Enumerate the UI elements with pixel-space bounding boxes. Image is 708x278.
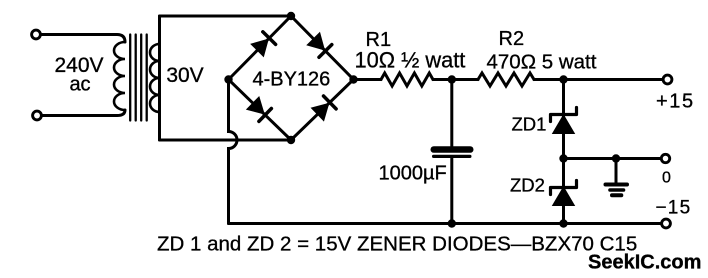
junction node bridge top: [287, 12, 295, 20]
transformer T1 primary winding: [114, 42, 125, 110]
terminal input bottom: [33, 111, 42, 120]
wire capacitor branch bottom: [450, 159, 453, 224]
terminal input top: [32, 30, 41, 39]
wire secondary bottom to bridge bottom node: [160, 139, 292, 142]
svg-text:ac: ac: [69, 74, 90, 96]
wire secondary top to bridge: [160, 15, 292, 18]
wire capacitor branch top: [450, 80, 453, 147]
diode D2 (top-right arm): [307, 33, 332, 58]
svg-text:30V: 30V: [166, 64, 203, 87]
junction node bridge left: [224, 75, 232, 83]
diode D4 (bottom-right arm): [312, 96, 337, 121]
junction node bridge right: [349, 75, 357, 83]
ground stub: [615, 159, 618, 183]
svg-text:4-BY126: 4-BY126: [252, 69, 330, 91]
resistor R1 zigzag: [381, 73, 433, 86]
wire zener branch ZD2: [562, 159, 565, 224]
wire zener branch ZD1: [562, 80, 565, 159]
junction node C1 bottom: [448, 219, 456, 227]
wire 0 rail: [564, 157, 662, 160]
wire top input: [41, 35, 126, 43]
svg-text:0: 0: [662, 170, 671, 187]
wire left bridge node down with hop over wire: [229, 80, 238, 224]
junction node ZD1/ZD2/0: [559, 154, 567, 162]
svg-text:1000µF: 1000µF: [379, 163, 447, 185]
junction node bridge bottom: [287, 136, 295, 144]
diode D1 (left-top arm): [251, 32, 276, 57]
zener diode ZD1: [551, 108, 577, 134]
svg-text:+15: +15: [656, 91, 695, 113]
wire secondary spine: [158, 16, 161, 140]
transformer T1 core: [130, 35, 147, 121]
zener diode ZD2: [551, 181, 577, 206]
junction node R1/C1: [448, 75, 456, 83]
terminal 0: [661, 154, 669, 162]
svg-text:ZD 1 and ZD 2 = 15V ZENER DIOD: ZD 1 and ZD 2 = 15V ZENER DIODES—BZX70 C…: [157, 233, 637, 256]
svg-text:SeekIC.com: SeekIC.com: [588, 252, 701, 274]
junction node ground: [612, 154, 620, 162]
junction node R2/ZD1: [559, 75, 567, 83]
bridge rectifier 4-BY126 diamond: [229, 16, 354, 140]
svg-text:10Ω ½ watt: 10Ω ½ watt: [355, 47, 466, 72]
capacitor C1 1000uF plates: [431, 146, 474, 158]
svg-text:R2: R2: [499, 28, 525, 50]
wire bottom input: [42, 110, 126, 116]
ground symbol bars: [606, 185, 628, 196]
terminal -15: [662, 219, 671, 228]
junction node ZD2 bottom: [559, 219, 567, 227]
resistor R2 zigzag: [478, 73, 534, 86]
svg-text:470Ω 5 watt: 470Ω 5 watt: [487, 50, 597, 73]
wire bottom rail: [229, 222, 662, 225]
svg-text:−15: −15: [656, 197, 692, 218]
diode D3 (left-bottom arm): [247, 97, 272, 122]
wire R2 to +15 terminal: [534, 78, 663, 81]
terminal +15: [663, 75, 672, 84]
svg-text:ZD2: ZD2: [510, 175, 545, 196]
svg-text:ZD1: ZD1: [512, 114, 547, 135]
transformer T1 secondary winding: [150, 44, 160, 112]
wire bridge right node to R1: [354, 78, 382, 81]
wire R1 to R2: [433, 78, 478, 81]
